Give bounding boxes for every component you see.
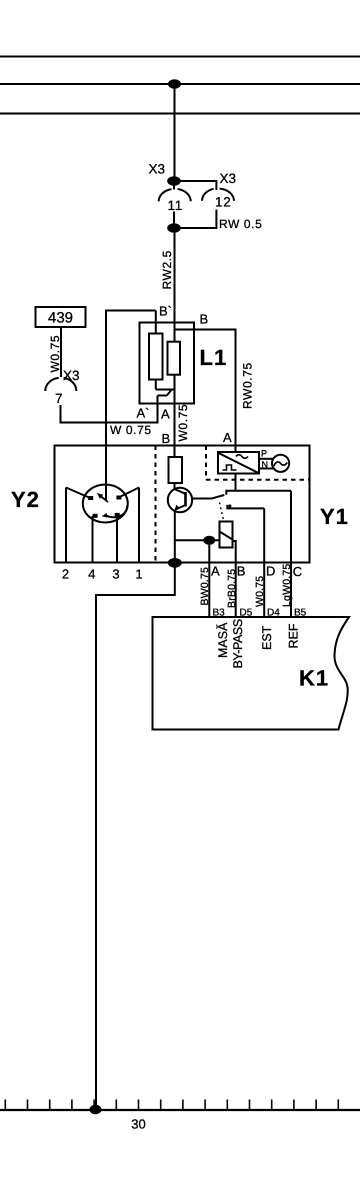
distributor pin 1 lead: [121, 488, 140, 563]
emitter wire down: [174, 510, 176, 564]
contact point dot: [228, 504, 231, 507]
bottom fixed contact: [227, 505, 264, 509]
distributor pin 4 lead: [92, 516, 94, 563]
svg-text:11: 11: [167, 198, 183, 213]
node: junction to terminal A: [203, 536, 215, 545]
distributor rotor circle: [83, 485, 128, 523]
leads to pickup source: [260, 458, 274, 460]
svg-text:EST: EST: [260, 625, 274, 650]
wire: pin 7 to coil terminal A`: [61, 396, 158, 423]
svg-text:A: A: [223, 430, 232, 445]
wire: pin 12 down and left to junction: [174, 210, 216, 229]
node: junction above connector 11: [167, 176, 181, 186]
AC source circle: [272, 455, 289, 472]
svg-text:W0.75: W0.75: [176, 404, 190, 442]
ignition coil L1 box: [140, 323, 195, 404]
top fixed contact: [226, 491, 291, 495]
box 439: [36, 307, 86, 327]
dotted mechanical link: [220, 503, 224, 521]
svg-text:4: 4: [88, 567, 95, 582]
rail ticks: [5, 1100, 338, 1111]
contact blade: [211, 495, 224, 499]
node: ground connection: [90, 1105, 102, 1115]
wire RW2.5 down to coil L1: [174, 228, 176, 342]
L1 primary winding: [149, 334, 163, 380]
svg-text:LgW0.75: LgW0.75: [281, 564, 293, 607]
svg-text:B: B: [162, 431, 171, 446]
svg-text:W0.75: W0.75: [48, 335, 62, 373]
wire resistor to transistor: [174, 483, 176, 489]
ECU connector K1: [153, 617, 350, 730]
dashed sensor sub-box: [206, 446, 310, 480]
svg-text:1: 1: [135, 567, 142, 582]
L1 secondary winding: [168, 342, 181, 375]
transistor Q (circle): [168, 488, 192, 512]
svg-text:Y1: Y1: [320, 504, 349, 529]
svg-text:2: 2: [62, 567, 69, 582]
bus rail 1 (top): [0, 56, 360, 58]
svg-text:3: 3: [112, 567, 119, 582]
connector X3 pin 11: [159, 185, 191, 201]
connector X3 pin 7: [45, 378, 76, 391]
bus rail 2: [0, 83, 360, 85]
pickup sensor box: [218, 452, 259, 474]
ground wire to rail 30: [96, 563, 175, 1109]
svg-text:Y2: Y2: [11, 487, 40, 512]
node: junction on Y1 bottom edge: [168, 558, 182, 568]
svg-text:BrB0.75: BrB0.75: [226, 569, 238, 608]
svg-text:MASĂ: MASĂ: [216, 622, 230, 658]
svg-text:RW 0.5: RW 0.5: [219, 217, 262, 231]
svg-text:B: B: [200, 312, 209, 327]
terminal B` stub: [155, 311, 157, 334]
wire: branch to connector 12: [174, 181, 216, 190]
AC sine: [274, 462, 287, 466]
wire B` to distributor rotor: [106, 311, 156, 501]
distributor pin 2 lead: [66, 488, 89, 563]
wire coil A down to Y1 terminal B: [174, 375, 176, 457]
Y2 / Y1 module box: [55, 446, 310, 563]
svg-text:BY-PASS: BY-PASS: [231, 619, 245, 668]
rotor arm with arrowhead: [97, 493, 108, 502]
square wave symbol: [223, 465, 237, 470]
ground rail 30: [0, 1109, 360, 1111]
distributor pin 3 lead: [116, 515, 118, 563]
bus rail 3: [0, 113, 360, 115]
wire to terminal C: [290, 491, 292, 617]
dashed divider: [155, 446, 157, 563]
svg-text:RW0.75: RW0.75: [241, 362, 255, 409]
wire coil B to Y1 terminal A: [175, 330, 236, 453]
svg-text:W0.75: W0.75: [254, 576, 266, 607]
distributor contact pads: [88, 496, 121, 518]
base lead to contact: [193, 498, 211, 500]
wire: rail 2 down to connector X3: [174, 84, 176, 180]
coil internal connection: [156, 380, 175, 396]
connector X3 pin 12: [202, 189, 234, 201]
relay coil diagonal: [220, 532, 233, 540]
relay coil K: [220, 522, 233, 548]
node: junction below connectors: [167, 223, 181, 233]
svg-text:D: D: [266, 564, 275, 579]
sensor diagonal: [219, 453, 259, 473]
svg-text:30: 30: [131, 1117, 145, 1132]
junction on rail 2: [168, 79, 181, 89]
svg-text:C: C: [293, 564, 302, 579]
svg-text:A: A: [211, 564, 220, 579]
svg-text:B: B: [237, 564, 246, 579]
svg-text:BW0.75: BW0.75: [199, 567, 211, 606]
svg-text:A: A: [161, 407, 170, 422]
svg-text:L1: L1: [200, 345, 228, 370]
svg-text:X3: X3: [149, 162, 166, 177]
wire to terminal D: [263, 508, 265, 617]
svg-text:12: 12: [215, 195, 232, 210]
wire emitter to relay coil: [175, 539, 220, 541]
sensor output lead: [235, 474, 237, 491]
sine symbol: [236, 455, 248, 459]
svg-text:7: 7: [55, 391, 63, 406]
rotation arrow: [102, 506, 127, 518]
svg-text:P: P: [261, 449, 267, 459]
wire to terminal A: [208, 540, 210, 617]
svg-text:RW2.5: RW2.5: [160, 250, 174, 289]
wire: pin 11 down to junction: [173, 212, 175, 224]
transistor internals: [175, 489, 186, 510]
svg-text:A`: A`: [137, 406, 150, 421]
svg-text:REF: REF: [287, 623, 301, 648]
wire: 439 down to connector X3 pin 7: [60, 327, 62, 377]
svg-text:B`: B`: [159, 304, 172, 319]
svg-text:X3: X3: [220, 171, 237, 186]
resistor in Y1: [169, 457, 183, 483]
relay coil to terminal B: [233, 541, 236, 617]
svg-text:K1: K1: [299, 666, 329, 691]
svg-text:439: 439: [48, 310, 73, 327]
svg-text:W 0.75: W 0.75: [110, 423, 152, 437]
